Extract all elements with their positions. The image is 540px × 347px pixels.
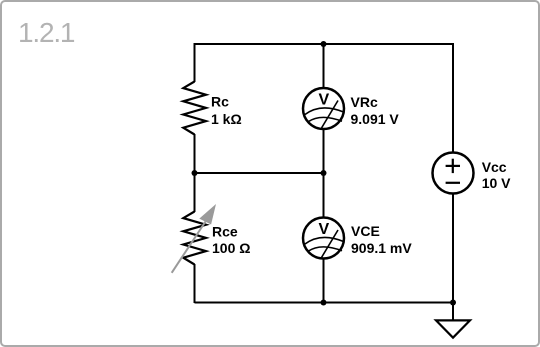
svg-text:V: V bbox=[318, 91, 329, 108]
svg-text:10 V: 10 V bbox=[482, 175, 511, 191]
wire top rail bbox=[195, 43, 454, 45]
wire bottom rail bbox=[195, 302, 454, 304]
wire middle branch upper lead bbox=[323, 43, 325, 89]
wire left branch bottom lead bbox=[194, 264, 196, 303]
svg-text:Rce: Rce bbox=[212, 224, 238, 240]
wire middle branch lower lead bbox=[323, 258, 325, 303]
svg-text:V: V bbox=[318, 221, 329, 238]
junction node bottom right bbox=[450, 300, 456, 306]
junction node middle-left bbox=[192, 170, 198, 176]
svg-text:Vcc: Vcc bbox=[482, 159, 507, 175]
svg-text:909.1 mV: 909.1 mV bbox=[351, 240, 412, 256]
junction node middle-center bbox=[321, 170, 327, 176]
resistor Rc bbox=[183, 82, 206, 135]
wire middle rail bbox=[195, 172, 324, 174]
voltmeter VRc bbox=[303, 88, 344, 129]
svg-text:VRc: VRc bbox=[351, 94, 378, 110]
junction node top middle bbox=[321, 41, 327, 47]
wire left branch mid lead bbox=[194, 134, 196, 173]
wire left branch lower lead bbox=[194, 173, 196, 212]
potentiometer arrow on Rce bbox=[172, 204, 216, 273]
wire ground stub bbox=[452, 302, 454, 320]
wire left branch upper lead bbox=[194, 43, 196, 82]
wire middle branch mid lead bbox=[323, 128, 325, 218]
svg-text:9.091 V: 9.091 V bbox=[351, 111, 400, 127]
voltmeter VCE bbox=[303, 218, 344, 259]
voltage source Vcc bbox=[433, 153, 474, 194]
ground bbox=[436, 320, 470, 337]
junction node bottom middle bbox=[321, 300, 327, 306]
svg-text:1 kΩ: 1 kΩ bbox=[211, 111, 242, 127]
svg-text:100 Ω: 100 Ω bbox=[212, 240, 250, 256]
svg-text:VCE: VCE bbox=[351, 223, 380, 239]
wire right branch upper lead bbox=[452, 43, 454, 153]
resistor Rce (variable) bbox=[183, 212, 206, 265]
svg-text:Rc: Rc bbox=[211, 94, 229, 110]
wire right branch lower lead bbox=[452, 193, 454, 303]
svg-text:1.2.1: 1.2.1 bbox=[18, 17, 75, 48]
